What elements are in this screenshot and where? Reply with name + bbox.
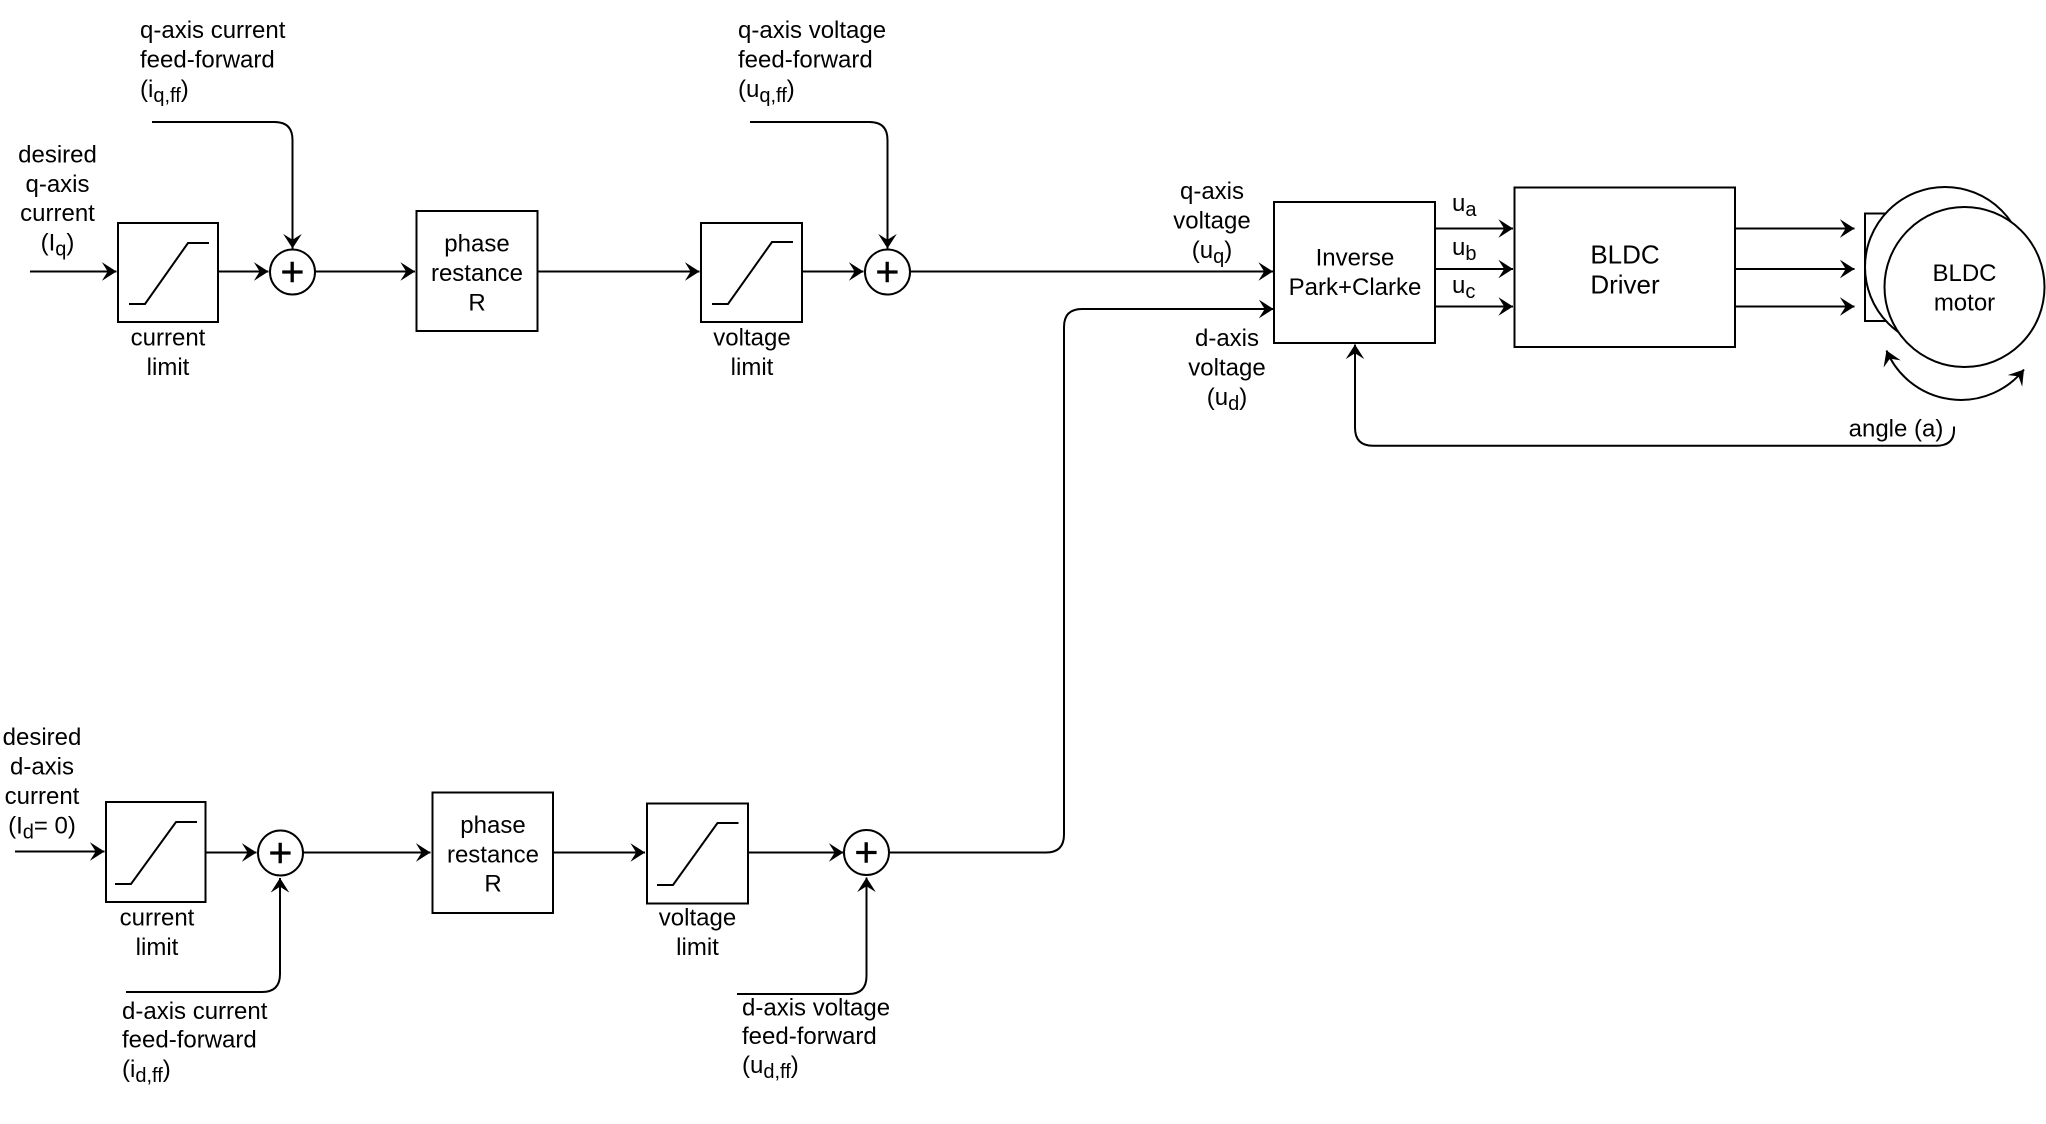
- svg-text:phase: phase: [460, 812, 525, 839]
- svg-text:R: R: [468, 290, 485, 317]
- svg-text:d-axis voltage: d-axis voltage: [742, 995, 890, 1022]
- svg-text:q-axis voltage: q-axis voltage: [738, 17, 886, 44]
- svg-text:BLDC: BLDC: [1590, 240, 1659, 270]
- svg-text:(Iq): (Iq): [41, 230, 75, 261]
- svg-text:R: R: [484, 871, 501, 898]
- svg-text:BLDC: BLDC: [1932, 260, 1996, 287]
- svg-text:feed-forward: feed-forward: [738, 47, 873, 74]
- svg-text:(uq): (uq): [1192, 237, 1232, 268]
- svg-text:voltage: voltage: [659, 905, 736, 932]
- svg-text:limit: limit: [731, 354, 774, 381]
- svg-text:current: current: [120, 905, 195, 932]
- svg-text:current: current: [20, 200, 95, 227]
- svg-text:q-axis: q-axis: [1180, 178, 1244, 205]
- svg-text:Inverse: Inverse: [1316, 245, 1395, 272]
- svg-text:voltage: voltage: [1188, 355, 1265, 382]
- svg-text:(Id= 0): (Id= 0): [8, 813, 76, 844]
- svg-text:restance: restance: [431, 260, 523, 287]
- svg-text:d-axis current: d-axis current: [122, 998, 268, 1025]
- svg-text:restance: restance: [447, 842, 539, 869]
- svg-text:phase: phase: [444, 231, 509, 258]
- svg-text:d-axis: d-axis: [1195, 325, 1259, 352]
- svg-text:Park+Clarke: Park+Clarke: [1289, 274, 1422, 301]
- svg-text:feed-forward: feed-forward: [742, 1023, 877, 1050]
- svg-text:ub: ub: [1452, 234, 1476, 265]
- svg-text:limit: limit: [136, 934, 179, 961]
- svg-text:q-axis: q-axis: [25, 171, 89, 198]
- svg-text:current: current: [131, 325, 206, 352]
- svg-text:desired: desired: [18, 142, 97, 169]
- svg-text:Driver: Driver: [1590, 270, 1660, 300]
- svg-text:current: current: [5, 783, 80, 810]
- svg-text:(id,ff): (id,ff): [122, 1056, 171, 1087]
- svg-text:(uq,ff): (uq,ff): [738, 76, 795, 107]
- svg-text:limit: limit: [147, 354, 190, 381]
- svg-text:angle (a): angle (a): [1849, 416, 1944, 443]
- svg-text:feed-forward: feed-forward: [122, 1027, 257, 1054]
- svg-text:ua: ua: [1452, 190, 1477, 221]
- svg-text:desired: desired: [3, 724, 82, 751]
- svg-text:(ud,ff): (ud,ff): [742, 1052, 799, 1083]
- svg-text:q-axis current: q-axis current: [140, 17, 286, 44]
- svg-text:feed-forward: feed-forward: [140, 47, 275, 74]
- svg-text:motor: motor: [1934, 290, 1995, 317]
- svg-text:d-axis: d-axis: [10, 754, 74, 781]
- svg-text:limit: limit: [676, 934, 719, 961]
- svg-text:voltage: voltage: [713, 325, 790, 352]
- svg-text:voltage: voltage: [1173, 208, 1250, 235]
- svg-text:(ud): (ud): [1207, 384, 1247, 415]
- svg-text:uc: uc: [1452, 272, 1475, 303]
- svg-text:(iq,ff): (iq,ff): [140, 76, 189, 107]
